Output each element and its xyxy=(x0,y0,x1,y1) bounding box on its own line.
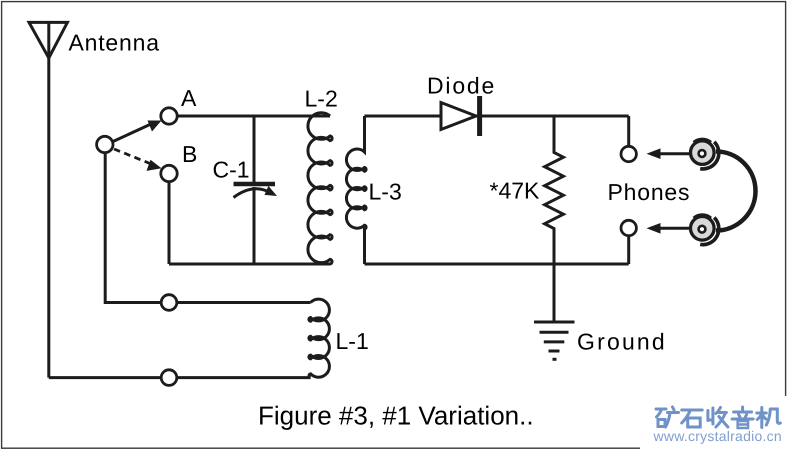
L-1 terminal circle bottom xyxy=(161,370,177,386)
wire B drop xyxy=(168,182,171,264)
L-1 terminal circle top xyxy=(161,295,177,311)
svg-text:L-1: L-1 xyxy=(336,328,369,354)
switch arrow dashed (to B) xyxy=(114,149,150,164)
wire tank top rail A to L-2 xyxy=(178,115,330,118)
wire phones right rail top xyxy=(627,116,630,145)
ground bar 1 xyxy=(534,321,575,324)
switch terminal A circle xyxy=(161,108,177,124)
svg-text:A: A xyxy=(181,85,197,111)
earpiece top back crescent xyxy=(700,142,719,169)
switch terminal B circle xyxy=(161,165,177,181)
ground bar 3 xyxy=(544,340,565,343)
svg-text:L-2: L-2 xyxy=(305,86,338,112)
capacitor C1 arrow head xyxy=(265,186,278,196)
phones arrow bottom head xyxy=(647,223,661,234)
char ji xyxy=(757,408,781,428)
svg-text:Antenna: Antenna xyxy=(69,30,160,56)
svg-text:B: B xyxy=(182,141,197,167)
switch arrow solid (to A) xyxy=(113,124,151,142)
wire tank bottom rail xyxy=(169,263,330,266)
earpiece top band anchor cap xyxy=(694,139,711,142)
svg-text:*47K: *47K xyxy=(490,178,541,204)
capacitor C1 top plate xyxy=(234,182,276,186)
antenna xyxy=(29,22,67,58)
svg-text:L-3: L-3 xyxy=(369,179,402,205)
wire phones right rail bottom xyxy=(627,237,630,264)
inductor L-3 xyxy=(346,116,366,264)
wire antenna bottom rail xyxy=(49,376,311,379)
ground bar 4 xyxy=(549,350,560,353)
phones arrow top head xyxy=(647,148,661,159)
char shou xyxy=(708,408,728,428)
watermark CJK 矿石收音机 (drawn strokes) xyxy=(656,407,780,428)
svg-text:www.crystalradio.cn: www.crystalradio.cn xyxy=(653,428,782,444)
capacitor C1 lower wire xyxy=(253,187,256,264)
phones terminal circle bottom xyxy=(621,220,636,235)
inductor L-2 xyxy=(308,113,332,264)
svg-text:Phones: Phones xyxy=(608,179,691,205)
antenna mast wire xyxy=(47,22,50,377)
phones arrow top line xyxy=(657,152,690,155)
phones terminal circle top xyxy=(621,146,636,161)
svg-text:C-1: C-1 xyxy=(213,157,250,183)
ground bar 2 xyxy=(540,331,569,334)
earpiece bottom body xyxy=(691,217,715,241)
char kuang xyxy=(656,407,679,427)
diode D1 triangle xyxy=(441,103,476,130)
earpiece bottom band anchor cap xyxy=(694,215,711,218)
svg-text:Figure #3, #1 Variation..: Figure #3, #1 Variation.. xyxy=(258,401,534,431)
earpiece bottom hole xyxy=(699,226,706,233)
ground dot xyxy=(553,358,557,361)
wire secondary top rail xyxy=(365,115,629,118)
wire pole drop xyxy=(105,154,310,303)
headphone band arc xyxy=(716,152,756,231)
diode D1 cathode bar xyxy=(477,96,482,136)
watermark background cover xyxy=(640,396,787,450)
earpiece top hole xyxy=(699,150,706,157)
earpiece bottom back crescent xyxy=(700,218,719,245)
capacitor C1 branch wire xyxy=(253,116,256,182)
char shi xyxy=(682,410,703,427)
earpiece top body xyxy=(691,141,715,165)
wire secondary bottom rail xyxy=(365,263,629,266)
resistor *47K zigzag xyxy=(545,116,564,322)
inductor L-1 xyxy=(309,299,330,378)
phones arrow bottom line xyxy=(657,227,690,230)
char yin xyxy=(732,407,753,428)
svg-text:Diode: Diode xyxy=(427,72,496,98)
svg-text:Ground: Ground xyxy=(577,329,667,355)
capacitor C1 curved plate xyxy=(234,189,271,198)
switch pole circle xyxy=(97,136,113,152)
